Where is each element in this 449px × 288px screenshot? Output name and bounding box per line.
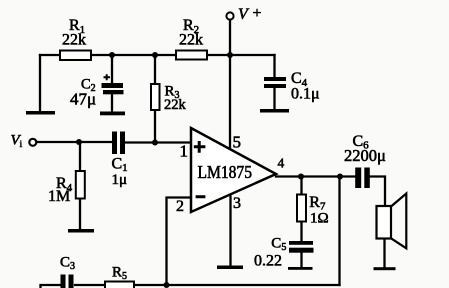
svg-text:3: 3	[233, 195, 241, 212]
svg-text:1: 1	[180, 142, 189, 161]
svg-text:2200μ: 2200μ	[344, 146, 386, 165]
svg-text:22k: 22k	[164, 97, 187, 113]
svg-text:+: +	[253, 5, 262, 22]
svg-text:2: 2	[176, 198, 184, 215]
svg-text:47μ: 47μ	[70, 90, 96, 109]
svg-text:1μ: 1μ	[112, 172, 128, 188]
svg-text:0.1μ: 0.1μ	[291, 86, 320, 103]
svg-text:22k: 22k	[179, 32, 203, 49]
svg-text:1M: 1M	[48, 188, 70, 205]
svg-text:5: 5	[233, 133, 242, 152]
svg-text:1Ω: 1Ω	[310, 210, 329, 226]
svg-text:4: 4	[278, 156, 285, 171]
svg-text:22k: 22k	[62, 32, 86, 49]
svg-text:0.22: 0.22	[254, 253, 282, 270]
svg-text:LM1875: LM1875	[198, 162, 253, 182]
